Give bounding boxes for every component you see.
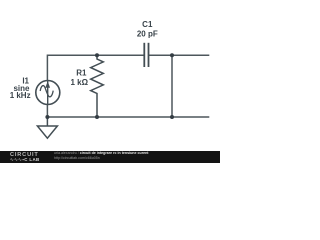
footer attribution bar [0,151,220,162]
attribution text [54,152,148,159]
current source I1 arrowhead [46,82,50,87]
wire: C1 right plate to node B [149,54,173,56]
svg-text:R1: R1 [76,69,87,78]
wire: R1 node to C1 left plate [97,54,145,56]
CircuitLab logo [10,153,52,162]
node: ground junction [45,115,49,119]
node: R1 bottom junction [95,115,99,119]
node A (R1 top junction) [95,53,99,57]
wire: bottom rail [47,116,209,118]
wire: right vertical from node B down [171,55,173,117]
wire top-left: corner to R1 node [47,55,96,80]
svg-text:1 kHz: 1 kHz [10,91,31,100]
svg-text:20 pF: 20 pF [137,30,158,39]
resistor R1 [91,55,104,117]
node: right bottom junction [170,115,174,119]
svg-text:C1: C1 [142,20,153,29]
ground [37,117,57,138]
wire: source bottom lead [46,104,48,117]
capacitor C1 [144,43,148,67]
node B (C1 out junction) [170,53,174,57]
svg-text:1 kΩ: 1 kΩ [70,78,88,87]
current source I1 [36,81,60,105]
wire: top-right stub [172,54,209,56]
